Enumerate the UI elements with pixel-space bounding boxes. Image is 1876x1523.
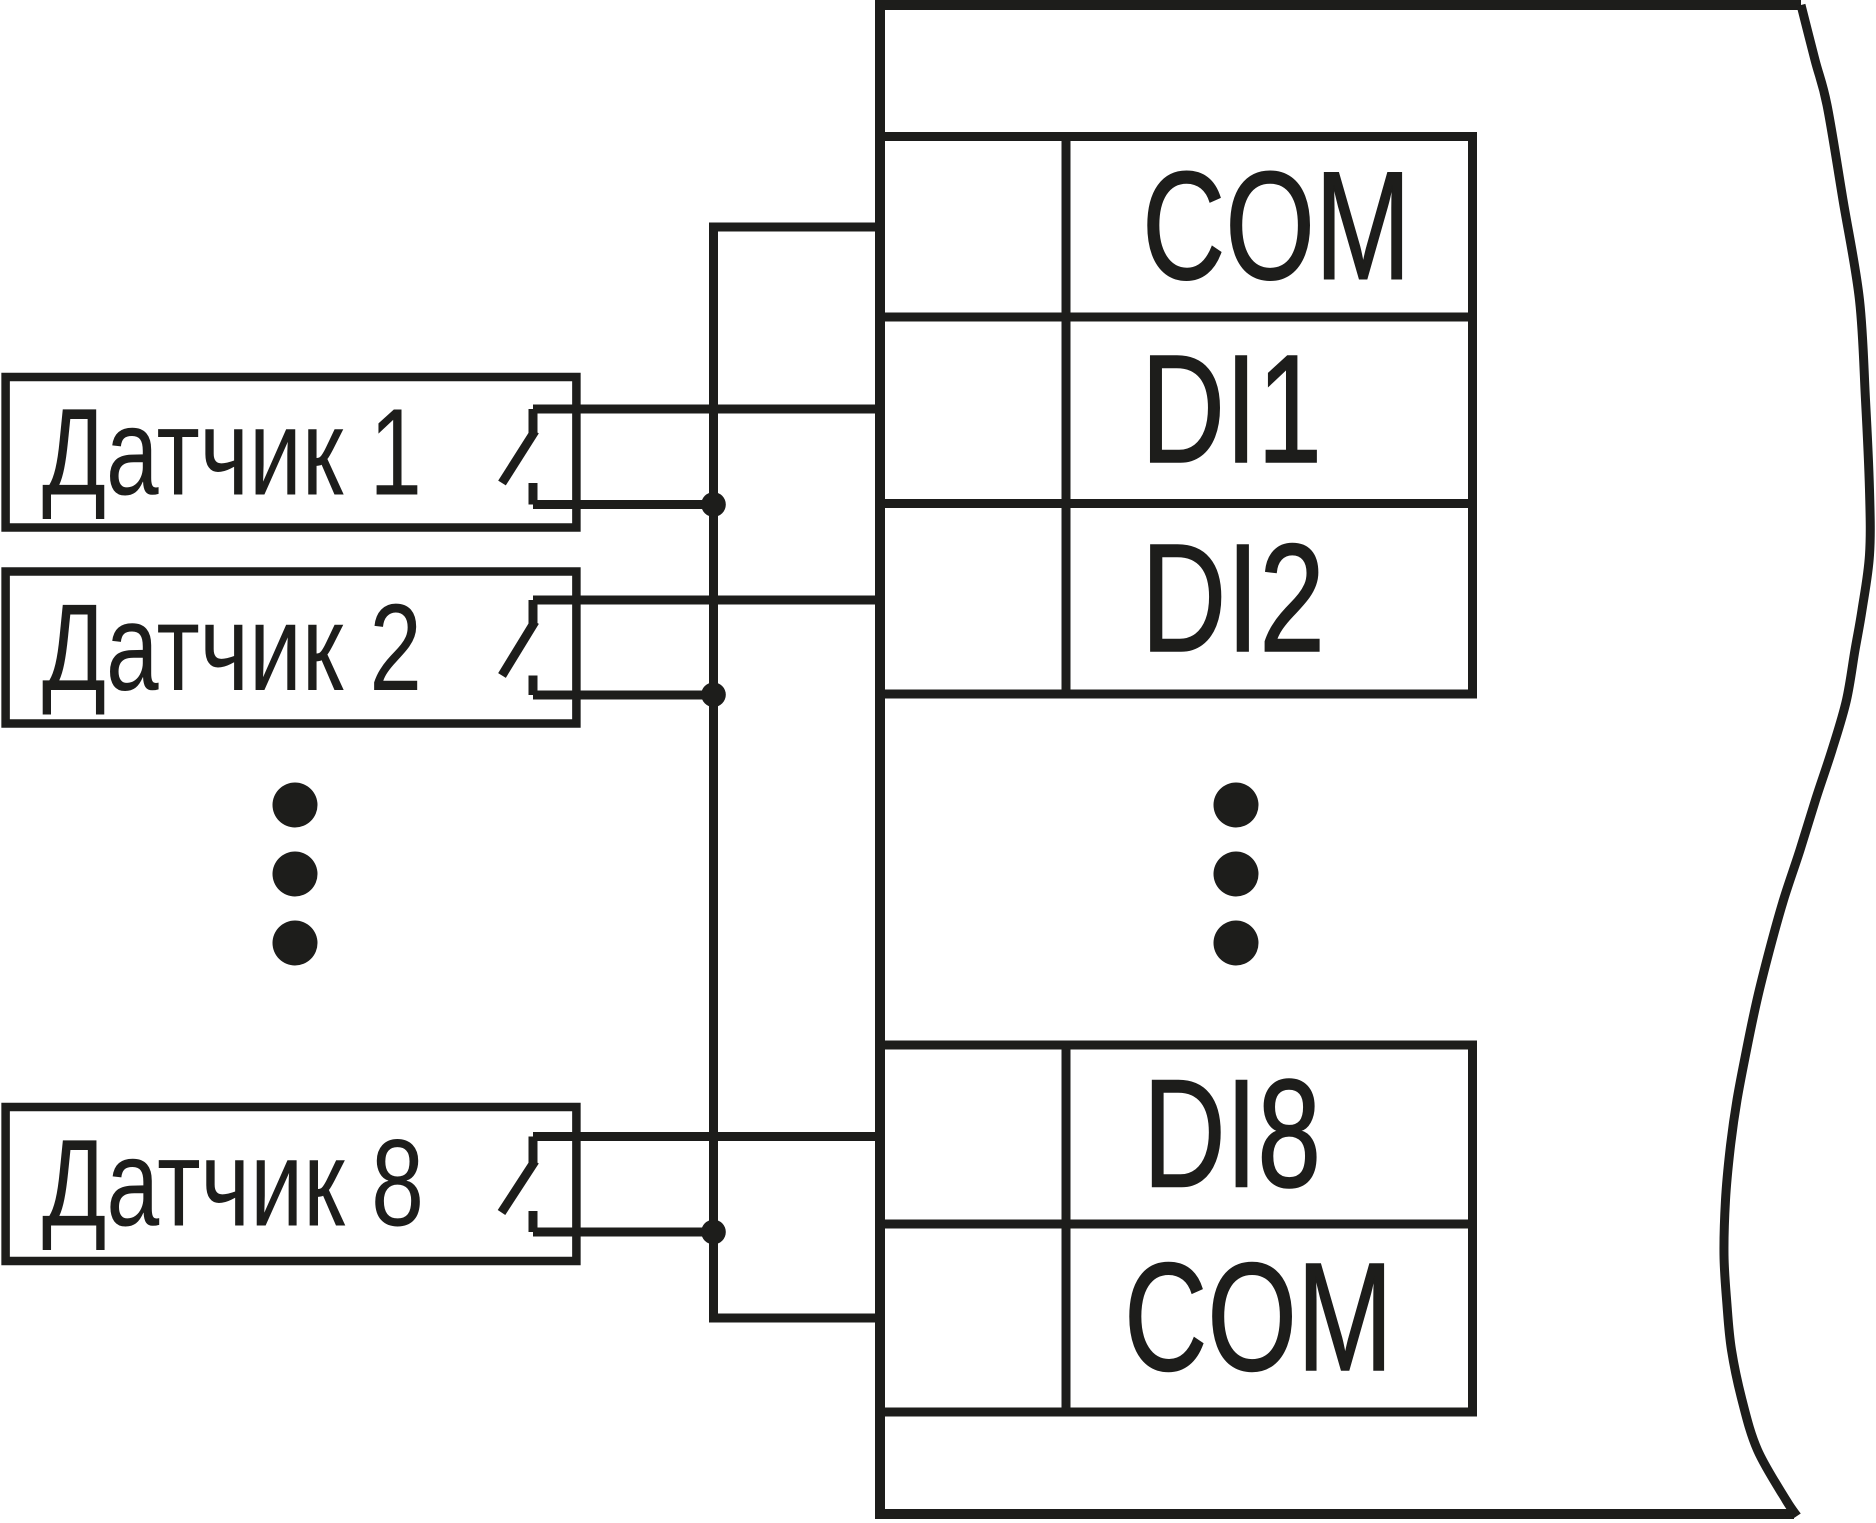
svg-text:DI8: DI8 [1143,1048,1321,1220]
svg-text:Датчик 2: Датчик 2 [42,580,422,717]
svg-text:COM: COM [1124,1231,1393,1403]
svg-text:COM: COM [1142,140,1411,312]
svg-text:DI1: DI1 [1141,323,1322,495]
svg-text:Датчик 8: Датчик 8 [42,1115,424,1252]
svg-text:Датчик 1: Датчик 1 [42,385,422,522]
svg-text:DI2: DI2 [1141,512,1325,684]
